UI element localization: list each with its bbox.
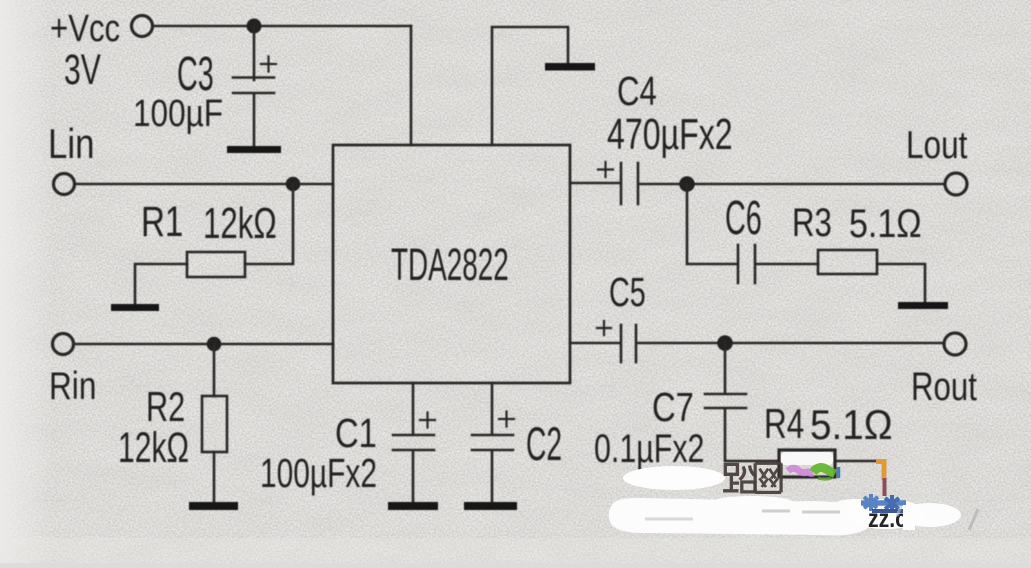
white blob inside R4 (781, 452, 833, 465)
node Lin junction (286, 177, 301, 192)
node C5 junction (717, 335, 733, 351)
ground top middle (545, 63, 595, 71)
resistor R2 (202, 396, 227, 452)
svg-text:Rout: Rout (911, 364, 977, 409)
wire Rin to IC (74, 343, 333, 346)
resistor R1 (187, 252, 245, 277)
wire R1 right leg (245, 184, 293, 264)
svg-text:3V: 3V (64, 45, 101, 94)
faint gray slash marks (897, 506, 978, 530)
watermark CJK LU (road) glyph (723, 464, 756, 492)
wire junction to C7 (724, 343, 727, 393)
wire Vcc rail (154, 25, 412, 28)
terminal +Vcc (132, 16, 153, 37)
node Vcc junction (247, 19, 262, 34)
wire IC to C4 (570, 182, 619, 185)
capacitor C6 (737, 245, 740, 283)
resistor R4 (779, 450, 835, 477)
wire IC pin to C2 (491, 383, 494, 434)
svg-text:Lout: Lout (906, 123, 968, 167)
ground below C1 (388, 502, 438, 510)
capacitor C5 (620, 325, 623, 362)
svg-text:C1: C1 (335, 409, 377, 455)
svg-text:C2: C2 (526, 419, 562, 471)
svg-text:R1: R1 (141, 198, 183, 246)
wire C1 to ground (412, 451, 415, 503)
faint gray dashes in white band (645, 511, 840, 519)
svg-text:R3: R3 (792, 200, 832, 245)
svg-text:12kΩ: 12kΩ (118, 423, 189, 472)
ground below R3 (898, 302, 948, 309)
terminal Rout (944, 333, 966, 355)
wire C2 to ground (491, 451, 494, 503)
svg-text:100µFx2: 100µFx2 (260, 450, 377, 496)
wire IC pin to C1 (412, 383, 415, 434)
capacitor C4 (620, 163, 623, 204)
wire Vcc to pin2 (410, 26, 413, 145)
svg-text:Rin: Rin (49, 364, 96, 408)
ground below C3 (227, 146, 281, 153)
ground below R1 (111, 304, 159, 311)
svg-text:R4: R4 (764, 400, 804, 448)
op-amp U1 TDA2822 body (333, 145, 570, 383)
svg-text:C5: C5 (609, 270, 646, 315)
watermark white blob left (623, 466, 725, 490)
wire junction to C6 (687, 184, 736, 264)
terminal Lin (54, 174, 75, 195)
svg-text:TDA2822: TDA2822 (391, 239, 509, 289)
capacitor C1 (393, 434, 434, 437)
capacitor C7 (705, 393, 746, 396)
watermark CJK WANG (net) glyph (755, 463, 781, 492)
wire C4 to Lout (639, 183, 945, 186)
watermark white blob behind asterisks (846, 499, 926, 529)
wire R2 to ground (213, 452, 216, 502)
wire R4 right (835, 460, 878, 463)
wire R4 drop dark (883, 478, 887, 496)
node Rin junction (207, 337, 222, 352)
wire junction to R2 (213, 344, 216, 396)
svg-text:12kΩ: 12kΩ (203, 199, 277, 249)
svg-text:C7: C7 (652, 383, 694, 429)
watermark white band bottom (609, 496, 961, 535)
wire C3 top stem (253, 26, 256, 80)
watermark orange elbow (876, 462, 884, 481)
svg-text:0.1µFx2: 0.1µFx2 (594, 426, 704, 471)
node C4 junction (679, 176, 695, 192)
ground below C2 (464, 502, 517, 510)
ground below R2 (189, 502, 238, 510)
wire C6 to R3 (756, 263, 818, 266)
svg-text:+Vcc: +Vcc (50, 8, 120, 50)
svg-text:100µF: 100µF (133, 92, 223, 134)
terminal Rin (53, 334, 74, 355)
svg-text:5.1Ω: 5.1Ω (849, 200, 922, 245)
watermark blue asterisks (861, 494, 906, 512)
svg-text:470µFx2: 470µFx2 (607, 110, 733, 159)
wire C3 bottom stem (253, 94, 256, 147)
wire C5 to Rout (637, 342, 944, 345)
wire C7 to R4 (725, 409, 779, 461)
watermark pink squiggle (788, 468, 813, 473)
white clip over last glyph (903, 505, 915, 530)
svg-text:C4: C4 (617, 68, 657, 114)
svg-text:C6: C6 (725, 192, 762, 245)
wire Lin to IC (75, 183, 333, 186)
terminal Lout (945, 173, 967, 195)
capacitor C3 (233, 76, 274, 79)
svg-text:5.1Ω: 5.1Ω (810, 400, 893, 448)
watermark blue tick (837, 467, 841, 478)
capacitor C2 (472, 434, 513, 437)
lighter left margin (0, 0, 54, 563)
watermark green blob (813, 468, 835, 474)
svg-text:Lin: Lin (48, 121, 95, 168)
resistor R3 (818, 250, 877, 274)
wire IC pin top right up (492, 27, 568, 145)
wire IC to C5 (570, 342, 620, 345)
wire R1 left leg (135, 264, 187, 304)
lighter bottom margin (0, 538, 1031, 563)
wire R3 to ground (877, 264, 925, 302)
